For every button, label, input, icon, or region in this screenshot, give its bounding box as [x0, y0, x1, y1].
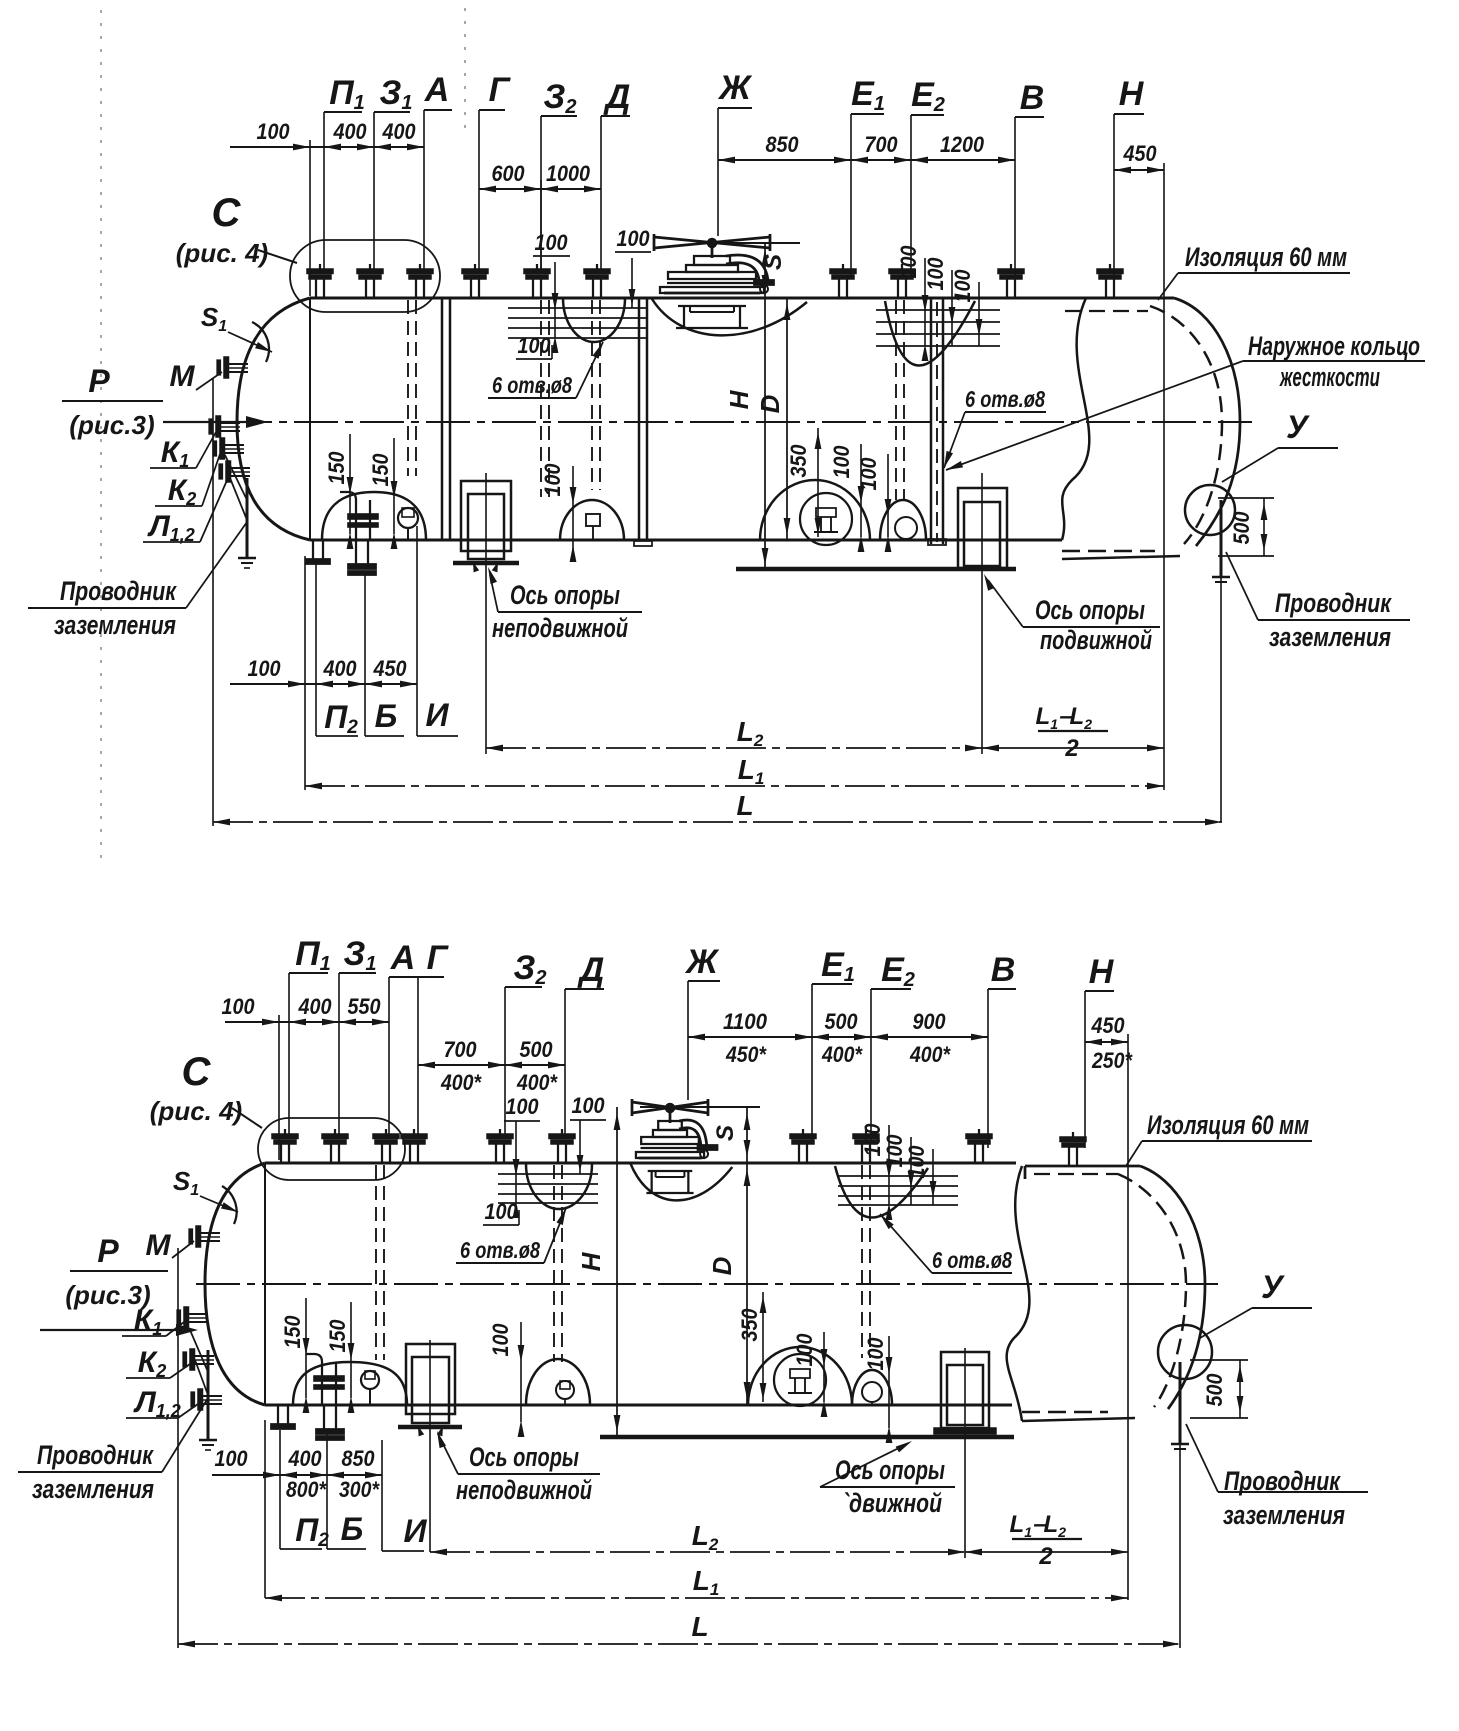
svg-text:550: 550 — [348, 994, 382, 1019]
svg-text:100: 100 — [485, 1199, 519, 1224]
svg-text:400: 400 — [298, 994, 333, 1019]
detail circle У (lower) — [1158, 1325, 1212, 1379]
svg-text:100: 100 — [248, 656, 282, 681]
svg-text:Б: Б — [375, 698, 398, 734]
insulation bottom outline (lower) — [1022, 1418, 1135, 1421]
svg-text:Проводник: Проводник — [60, 576, 177, 606]
big saddle dome Е1 — [760, 480, 870, 540]
svg-text:жесткости: жесткости — [1279, 362, 1381, 392]
svg-text:450: 450 — [373, 656, 408, 681]
saddle dome at movable area (lower) — [526, 1359, 590, 1405]
svg-text:2: 2 — [1038, 1543, 1053, 1570]
dim row 700-500 starred — [418, 1064, 565, 1066]
dim row 1100-500-900 starred — [688, 1036, 988, 1038]
nozzle Д — [584, 269, 610, 274]
svg-text:100: 100 — [904, 1145, 929, 1179]
svg-text:450*: 450* — [725, 1042, 767, 1067]
svg-text:А: А — [390, 939, 416, 977]
extension М for L (lower) — [177, 1248, 179, 1648]
svg-text:неподвижной: неподвижной — [492, 613, 628, 643]
dim row 100-400-550 (lower) — [225, 1021, 389, 1023]
svg-text:(рис. 4): (рис. 4) — [150, 1096, 242, 1126]
leader C to oval — [258, 250, 297, 263]
svg-text:М: М — [146, 1229, 172, 1262]
svg-text:заземления: заземления — [54, 610, 176, 640]
svg-text:400: 400 — [288, 1446, 323, 1471]
stub П2 — [312, 540, 314, 559]
bolt circle lines left (З2-Д) — [563, 298, 625, 342]
nozzle А (lower) — [373, 1134, 399, 1139]
nozzle З1 — [357, 269, 383, 274]
stub К2 (lower) — [190, 1349, 195, 1370]
svg-text:100: 100 — [923, 257, 948, 291]
hidden bore Д dashed (lower) — [553, 1165, 555, 1362]
svg-text:100: 100 — [257, 119, 291, 144]
head thickness arc — [252, 322, 269, 362]
small saddle dome — [880, 500, 926, 540]
stub М — [224, 357, 229, 378]
svg-text:Д: Д — [603, 78, 631, 116]
stub К1 — [216, 416, 221, 437]
vessel axis line — [228, 421, 1252, 423]
support axis movable (lower) — [964, 1348, 966, 1558]
dim L2 — [486, 747, 982, 749]
svg-text:Ось опоры: Ось опоры — [835, 1455, 945, 1485]
svg-text:850: 850 — [342, 1446, 376, 1471]
paper fold mark upper — [464, 8, 466, 132]
svg-text:подвижной: подвижной — [1040, 625, 1152, 655]
stub Б — [355, 540, 357, 564]
svg-text:350: 350 — [786, 444, 811, 478]
svg-text:400: 400 — [382, 119, 417, 144]
svg-text:100: 100 — [222, 994, 256, 1019]
stub Л12 — [226, 461, 231, 482]
S dim (lower) — [640, 1106, 760, 1108]
nozzle З2 (lower) — [487, 1134, 513, 1139]
hidden bore Е2 (dashed) — [895, 300, 897, 500]
fixed saddle support — [461, 481, 511, 551]
nozzle Е1 — [830, 269, 856, 274]
svg-text:заземления: заземления — [1269, 622, 1391, 652]
S dim — [712, 242, 800, 244]
dim 450-250 starred (lower right) — [1085, 1041, 1128, 1043]
extension М for L — [212, 378, 214, 826]
svg-text:1100: 1100 — [723, 1009, 768, 1034]
dim L — [213, 821, 1222, 823]
nozzle В (lower) — [966, 1134, 992, 1139]
svg-text:Проводник: Проводник — [1275, 588, 1392, 618]
nozzle Д (lower) — [549, 1134, 575, 1139]
svg-text:800*: 800* — [286, 1477, 327, 1502]
D dim — [786, 298, 788, 540]
svg-text:(рис. 4): (рис. 4) — [176, 238, 268, 268]
svg-text:150: 150 — [280, 1315, 305, 1349]
svg-text:400: 400 — [333, 119, 368, 144]
insulation plateau outline — [1024, 1166, 1027, 1179]
stub Л12 (lower) — [198, 1389, 203, 1410]
svg-text:И: И — [403, 1513, 427, 1549]
svg-text:Ось опоры: Ось опоры — [469, 1442, 579, 1472]
svg-text:850: 850 — [766, 132, 800, 157]
svg-text:600: 600 — [492, 161, 526, 186]
svg-text:Д: Д — [577, 951, 605, 989]
svg-text:`движной: `движной — [842, 1488, 942, 1518]
svg-text:100: 100 — [863, 1337, 888, 1371]
svg-text:Проводник: Проводник — [37, 1440, 154, 1470]
svg-text:Н: Н — [576, 1251, 606, 1271]
svg-text:В: В — [991, 951, 1016, 989]
svg-text:Р: Р — [97, 1233, 119, 1269]
svg-text:500: 500 — [1202, 1373, 1227, 1407]
svg-text:6 отв.ø8: 6 отв.ø8 — [965, 386, 1045, 412]
svg-text:100: 100 — [896, 245, 921, 279]
safety valve Ж (lower) — [632, 1102, 708, 1113]
right head insulation outline — [1174, 298, 1240, 546]
svg-text:У: У — [1261, 1269, 1285, 1305]
svg-text:500: 500 — [520, 1037, 554, 1062]
head seam (lower) — [264, 1163, 266, 1405]
svg-text:900: 900 — [913, 1009, 947, 1034]
svg-text:100: 100 — [856, 457, 881, 491]
svg-text:6 отв.ø8: 6 отв.ø8 — [932, 1247, 1012, 1273]
head-to-shell seam — [309, 298, 311, 540]
leader C (lower) — [232, 1108, 262, 1128]
svg-text:1200: 1200 — [940, 132, 985, 157]
svg-text:400: 400 — [323, 656, 358, 681]
hidden bore З2 (dashed) — [540, 300, 542, 497]
right extension vertical — [1163, 163, 1165, 790]
nozzle З2 — [524, 269, 550, 274]
oval C group outline — [290, 240, 440, 312]
svg-text:6 отв.ø8: 6 отв.ø8 — [460, 1237, 540, 1263]
dim row 100-400-450 bottom — [230, 683, 417, 685]
safety valve Ж — [654, 237, 770, 248]
grounding conductor left — [246, 478, 249, 558]
fixed saddle support (lower) — [406, 1344, 455, 1414]
svg-text:А: А — [424, 71, 450, 109]
svg-text:700: 700 — [444, 1037, 478, 1062]
nozzle Г (lower) — [401, 1134, 427, 1139]
break wavy line (lower) — [1007, 1166, 1030, 1421]
right head insulation outline (lower) — [1140, 1166, 1205, 1409]
svg-text:Наружное кольцо: Наружное кольцо — [1248, 331, 1420, 361]
svg-text:D: D — [755, 394, 785, 413]
svg-text:Ось опоры: Ось опоры — [510, 580, 620, 610]
svg-text:2: 2 — [1064, 735, 1079, 762]
nozzle Н — [1097, 269, 1123, 274]
movable saddle support — [958, 488, 1007, 568]
drain circlet И (lower) — [361, 1371, 379, 1389]
svg-text:L: L — [691, 1611, 708, 1642]
stub Б (lower) — [323, 1405, 325, 1429]
nozzle В — [998, 269, 1024, 274]
svg-text:500: 500 — [1229, 511, 1254, 545]
svg-text:В: В — [1020, 79, 1045, 117]
shell top dashed right segment — [1065, 310, 1148, 312]
svg-text:100: 100 — [488, 1323, 513, 1357]
svg-text:С: С — [212, 191, 242, 235]
svg-text:6 отв.ø8: 6 отв.ø8 — [492, 372, 572, 398]
svg-text:450: 450 — [1123, 141, 1158, 166]
hidden bore Е2 dashed (lower) — [861, 1165, 863, 1358]
dim row 850-700-1200 — [718, 159, 1015, 161]
detail circle У — [1185, 485, 1235, 535]
support axis fixed (lower) — [429, 1340, 431, 1552]
oval C group outline (lower) — [258, 1118, 405, 1180]
svg-text:100: 100 — [215, 1446, 249, 1471]
grounding conductor left (lower) — [207, 1350, 210, 1440]
right head shell (dashed) — [1150, 306, 1222, 544]
small saddle dome (lower) — [852, 1370, 892, 1405]
left elliptical head (lower) — [205, 1163, 265, 1405]
svg-text:250*: 250* — [1091, 1048, 1133, 1073]
insulation bottom outline — [1062, 556, 1180, 559]
stub П2 (lower) — [277, 1405, 279, 1424]
left elliptical head — [237, 298, 310, 540]
dim 450 right — [1114, 169, 1164, 171]
grounding conductor right — [1220, 500, 1223, 577]
nozzle Е2 (lower) — [853, 1134, 879, 1139]
head thickness arc (lower) — [222, 1186, 237, 1224]
support axis (movable) — [981, 473, 983, 754]
svg-text:100: 100 — [792, 1333, 817, 1367]
svg-text:Б: Б — [341, 1511, 364, 1547]
nozzle Г — [462, 269, 488, 274]
dim L (lower) — [178, 1643, 1180, 1645]
svg-text:Н: Н — [1119, 75, 1145, 113]
svg-text:Изоляция 60 мм: Изоляция 60 мм — [1185, 242, 1347, 272]
right extension vertical (lower) — [1127, 1034, 1129, 1600]
saddle dome at fixed support — [560, 500, 624, 540]
dim row 600-1000 — [479, 188, 601, 190]
svg-text:450: 450 — [1091, 1013, 1126, 1038]
paper fold mark left — [100, 10, 102, 858]
movable saddle support (lower) — [941, 1352, 989, 1428]
vessel shell (lower view) — [265, 1162, 1016, 1165]
svg-text:(рис.3): (рис.3) — [69, 410, 154, 440]
svg-text:С: С — [182, 1050, 212, 1094]
nozzle Е2 — [889, 269, 915, 274]
dim row 100-400-400 — [230, 146, 424, 148]
svg-text:(рис.3): (рис.3) — [65, 1280, 150, 1310]
svg-text:150: 150 — [368, 453, 393, 487]
svg-text:150: 150 — [324, 451, 349, 485]
nozzle А — [407, 269, 433, 274]
nozzle Н (lower) — [1060, 1137, 1086, 1142]
svg-text:М: М — [170, 360, 196, 393]
dim row 100-400-850 starred (lower) — [212, 1474, 382, 1476]
svg-text:400*: 400* — [821, 1042, 863, 1067]
svg-text:100: 100 — [950, 269, 975, 303]
svg-text:700: 700 — [865, 132, 899, 157]
svg-text:100: 100 — [829, 445, 854, 479]
dim L1 — [305, 785, 1164, 787]
H dim — [764, 298, 766, 569]
vessel shell (upper view) — [310, 297, 1174, 300]
svg-text:400*: 400* — [909, 1042, 951, 1067]
extension L1 left (lower) — [264, 1420, 266, 1598]
nozzle П1 (lower) — [272, 1134, 298, 1139]
grounding conductor right (lower) — [1179, 1362, 1182, 1444]
outer ring stiffener — [930, 298, 933, 544]
support axis (fixed) — [485, 473, 487, 754]
svg-text:Р: Р — [88, 363, 110, 399]
svg-text:Г: Г — [427, 939, 450, 977]
svg-text:D: D — [707, 1256, 737, 1275]
svg-text:Ось опоры: Ось опоры — [1035, 595, 1145, 625]
ground line (lower) — [600, 1435, 1014, 1439]
svg-text:неподвижной: неподвижной — [456, 1475, 592, 1505]
svg-text:Ж: Ж — [717, 69, 753, 107]
bolt circle lines right (Е2) — [885, 301, 975, 366]
svg-text:S: S — [760, 254, 787, 270]
svg-text:заземления: заземления — [32, 1474, 154, 1504]
saddle dome П2-Б (lower) — [293, 1362, 407, 1405]
svg-text:L: L — [736, 790, 753, 821]
ring stiffener 2 — [638, 298, 641, 540]
saddle dome П2-Б — [322, 492, 426, 540]
dim (L1-L2)/2 (lower) — [965, 1551, 1128, 1553]
svg-text:350: 350 — [737, 1308, 762, 1342]
svg-text:100: 100 — [540, 463, 565, 497]
bolt circle lines Е2 (lower) — [835, 1166, 928, 1218]
bolt circle lines З2-Д (lower) — [526, 1164, 592, 1209]
nozzle П1 — [307, 269, 333, 274]
big saddle dome Е1 (lower) — [748, 1347, 852, 1405]
svg-text:100: 100 — [506, 1094, 540, 1119]
H dim (lower) — [616, 1107, 618, 1437]
svg-text:Н: Н — [1089, 953, 1115, 991]
hidden bore А (dashed) — [407, 300, 409, 476]
drain circlet И — [398, 508, 418, 528]
ground line under supports — [736, 567, 1016, 571]
svg-text:100: 100 — [535, 230, 569, 255]
nozzle Е1 (lower) — [790, 1134, 816, 1139]
svg-text:Изоляция 60 мм: Изоляция 60 мм — [1147, 1110, 1309, 1140]
svg-text:Г: Г — [489, 71, 512, 109]
ring stiffener 1 — [441, 298, 444, 540]
svg-text:500: 500 — [825, 1009, 859, 1034]
dim L1 (lower) — [265, 1597, 1128, 1599]
stub К2 — [220, 438, 225, 459]
svg-text:У: У — [1286, 409, 1310, 445]
dim 500 (lower) — [1190, 1359, 1248, 1361]
svg-text:заземления: заземления — [1223, 1500, 1345, 1530]
nozzle З1 (lower) — [322, 1134, 348, 1139]
dim 500 — [1218, 497, 1274, 499]
svg-text:400*: 400* — [440, 1070, 482, 1095]
dim (L1-L2)/2 — [982, 747, 1164, 749]
vessel axis (lower) — [196, 1283, 1218, 1285]
svg-text:300*: 300* — [339, 1477, 380, 1502]
insulation bottom line (dashed) — [1062, 550, 1155, 553]
svg-text:150: 150 — [325, 1319, 350, 1353]
hidden bore Д (dashed) — [591, 300, 593, 490]
shell top dashed right (lower) — [1034, 1173, 1118, 1175]
svg-text:100: 100 — [518, 333, 552, 358]
svg-text:S: S — [712, 1125, 739, 1141]
stub М (lower) — [196, 1226, 201, 1247]
detail circle in dome (lower) — [774, 1354, 826, 1406]
stub К1 (lower) — [184, 1307, 189, 1328]
insulation bottom dashed (lower) — [1022, 1411, 1108, 1414]
svg-text:Н: Н — [724, 389, 754, 409]
svg-text:Ж: Ж — [684, 943, 720, 981]
dim L2 (lower) — [430, 1551, 965, 1553]
svg-text:400*: 400* — [516, 1070, 558, 1095]
detail circle in dome — [800, 493, 852, 545]
hidden bore А-Г dashed (lower) — [375, 1165, 377, 1360]
D dim (lower) — [746, 1163, 748, 1405]
right head shell dashed (lower) — [1118, 1174, 1186, 1407]
svg-text:100: 100 — [617, 226, 651, 251]
svg-text:1000: 1000 — [546, 161, 591, 186]
break wavy line — [1062, 298, 1089, 540]
svg-text:И: И — [425, 697, 449, 733]
svg-text:100: 100 — [572, 1093, 606, 1118]
